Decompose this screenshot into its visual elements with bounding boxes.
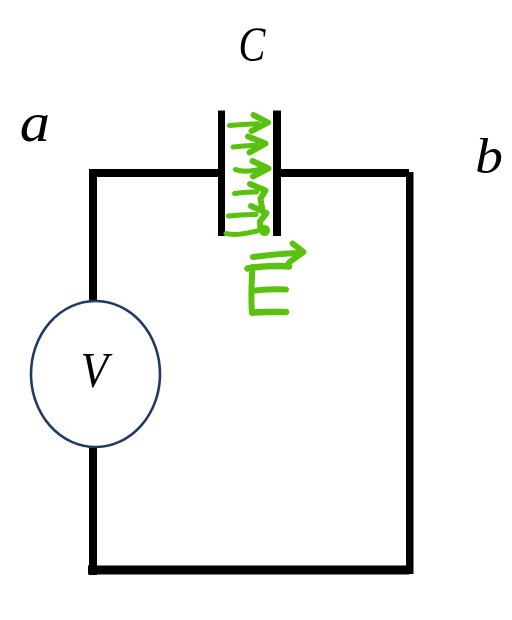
field arrow 4: [235, 192, 257, 194]
E vector arrow: [253, 253, 298, 257]
field arrow 6: [226, 231, 257, 234]
capacitor C1 right plate: [273, 111, 281, 237]
wire: bottom horizontal segment: [88, 566, 409, 575]
wire: right vertical segment: [406, 172, 414, 574]
E letter top bar: [248, 266, 290, 268]
field arrow 3: [236, 169, 261, 171]
E letter middle bar: [252, 289, 287, 291]
field arrow 1: [230, 124, 259, 126]
field arrow 5: [229, 215, 257, 217]
E letter bottom bar: [253, 309, 287, 316]
E letter vertical stroke: [251, 267, 252, 313]
wire: left vertical lower segment: [89, 445, 97, 575]
field arrow 2: [233, 145, 256, 147]
svg-text:b: b: [475, 129, 503, 184]
capacitor C1 left plate: [218, 111, 225, 237]
wire: top-right horizontal segment: [281, 169, 409, 177]
wire: left vertical upper segment: [89, 171, 97, 303]
svg-text:a: a: [20, 92, 50, 154]
wire: top-left horizontal segment: [89, 169, 218, 177]
svg-text:C: C: [239, 17, 267, 72]
voltmeter V1 circle: [31, 301, 160, 447]
svg-text:V: V: [81, 344, 113, 398]
